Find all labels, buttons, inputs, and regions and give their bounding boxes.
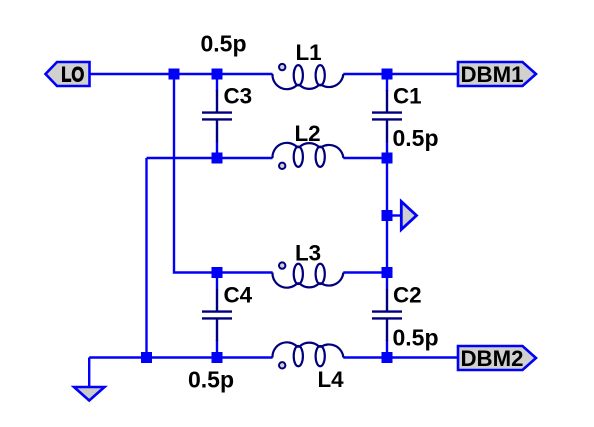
ground symbol — [74, 358, 105, 401]
port DBM1 (output flag) — [458, 62, 536, 87]
wire node F to output pointer — [392, 214, 401, 216]
inductor L4 (coil) — [272, 342, 343, 366]
port LO (input flag) — [46, 62, 90, 87]
wire ground corner to node J — [89, 356, 217, 358]
wire LO to node A — [90, 73, 175, 75]
wire L1 right to DBM1 — [343, 73, 458, 75]
wire node I to L3 left — [217, 271, 273, 273]
svg-text:0.5p: 0.5p — [393, 125, 439, 151]
svg-text:L1: L1 — [296, 40, 322, 65]
node H (junction) — [382, 352, 393, 363]
node K (junction) — [141, 352, 152, 363]
node G (junction) — [382, 267, 393, 278]
node E (junction) — [382, 153, 393, 164]
capacitor C1 — [372, 90, 402, 142]
wire node F to node G — [386, 216, 388, 273]
wire row2 corner down to bottom row — [145, 158, 147, 358]
node J (junction) — [212, 352, 223, 363]
node D (junction) — [212, 153, 223, 164]
inductor L3 (coil) — [272, 264, 343, 288]
wire L4 right to DBM2 — [343, 356, 458, 358]
svg-text:DBM1: DBM1 — [461, 62, 524, 87]
capacitor C3 — [202, 90, 232, 142]
svg-text:L3: L3 — [295, 240, 321, 265]
svg-text:0.5p: 0.5p — [188, 367, 234, 393]
inductor L2 (coil) — [272, 143, 343, 167]
wire C3 bottom to node D — [216, 142, 218, 159]
node F (junction) — [382, 210, 393, 221]
wire node D to L2 left — [217, 157, 273, 159]
wire node E to node F — [386, 158, 388, 216]
wire L3 right to node G — [343, 271, 387, 273]
wire C2 bottom to node H — [386, 340, 388, 358]
wire node A down and right to node I — [174, 74, 217, 273]
node C (junction) — [382, 69, 393, 80]
inductor L2 polarity dot — [279, 163, 285, 169]
svg-text:C2: C2 — [393, 282, 422, 307]
svg-text:L2: L2 — [295, 121, 321, 146]
node I (junction) — [212, 267, 223, 278]
wire C1 bottom to node E — [386, 142, 388, 159]
wire node C to C1 top — [386, 74, 388, 91]
wire node J to L4 left — [217, 356, 273, 358]
svg-text:C3: C3 — [224, 83, 253, 108]
inductor L3 polarity dot — [279, 262, 285, 268]
inductor L4 polarity dot — [279, 362, 285, 368]
wire node I to C4 top — [216, 273, 218, 290]
inductor L1 polarity dot — [279, 64, 285, 70]
svg-text:0.5p: 0.5p — [393, 324, 439, 350]
wire L2 right to node E — [343, 157, 387, 159]
svg-text:L4: L4 — [318, 367, 345, 392]
wire C4 bottom to node J — [216, 340, 218, 358]
wire row2 corner to node D — [147, 157, 218, 159]
svg-text:DBM2: DBM2 — [461, 346, 524, 371]
wire node B to C3 top — [216, 74, 218, 91]
wire node A to L1 left — [174, 73, 273, 75]
inductor L1 (coil) — [272, 65, 343, 89]
output pointer (port arrow) — [401, 202, 416, 230]
capacitor C4 — [202, 289, 232, 341]
svg-text:LO: LO — [61, 63, 84, 87]
svg-text:C1: C1 — [393, 83, 422, 108]
svg-text:0.5p: 0.5p — [201, 31, 247, 57]
svg-text:C4: C4 — [224, 282, 253, 307]
node A (junction) — [169, 69, 180, 80]
port DBM2 (output flag) — [458, 346, 536, 371]
capacitor C2 — [372, 289, 402, 341]
node B (junction) — [212, 69, 223, 80]
wire node G to C2 top — [386, 273, 388, 290]
